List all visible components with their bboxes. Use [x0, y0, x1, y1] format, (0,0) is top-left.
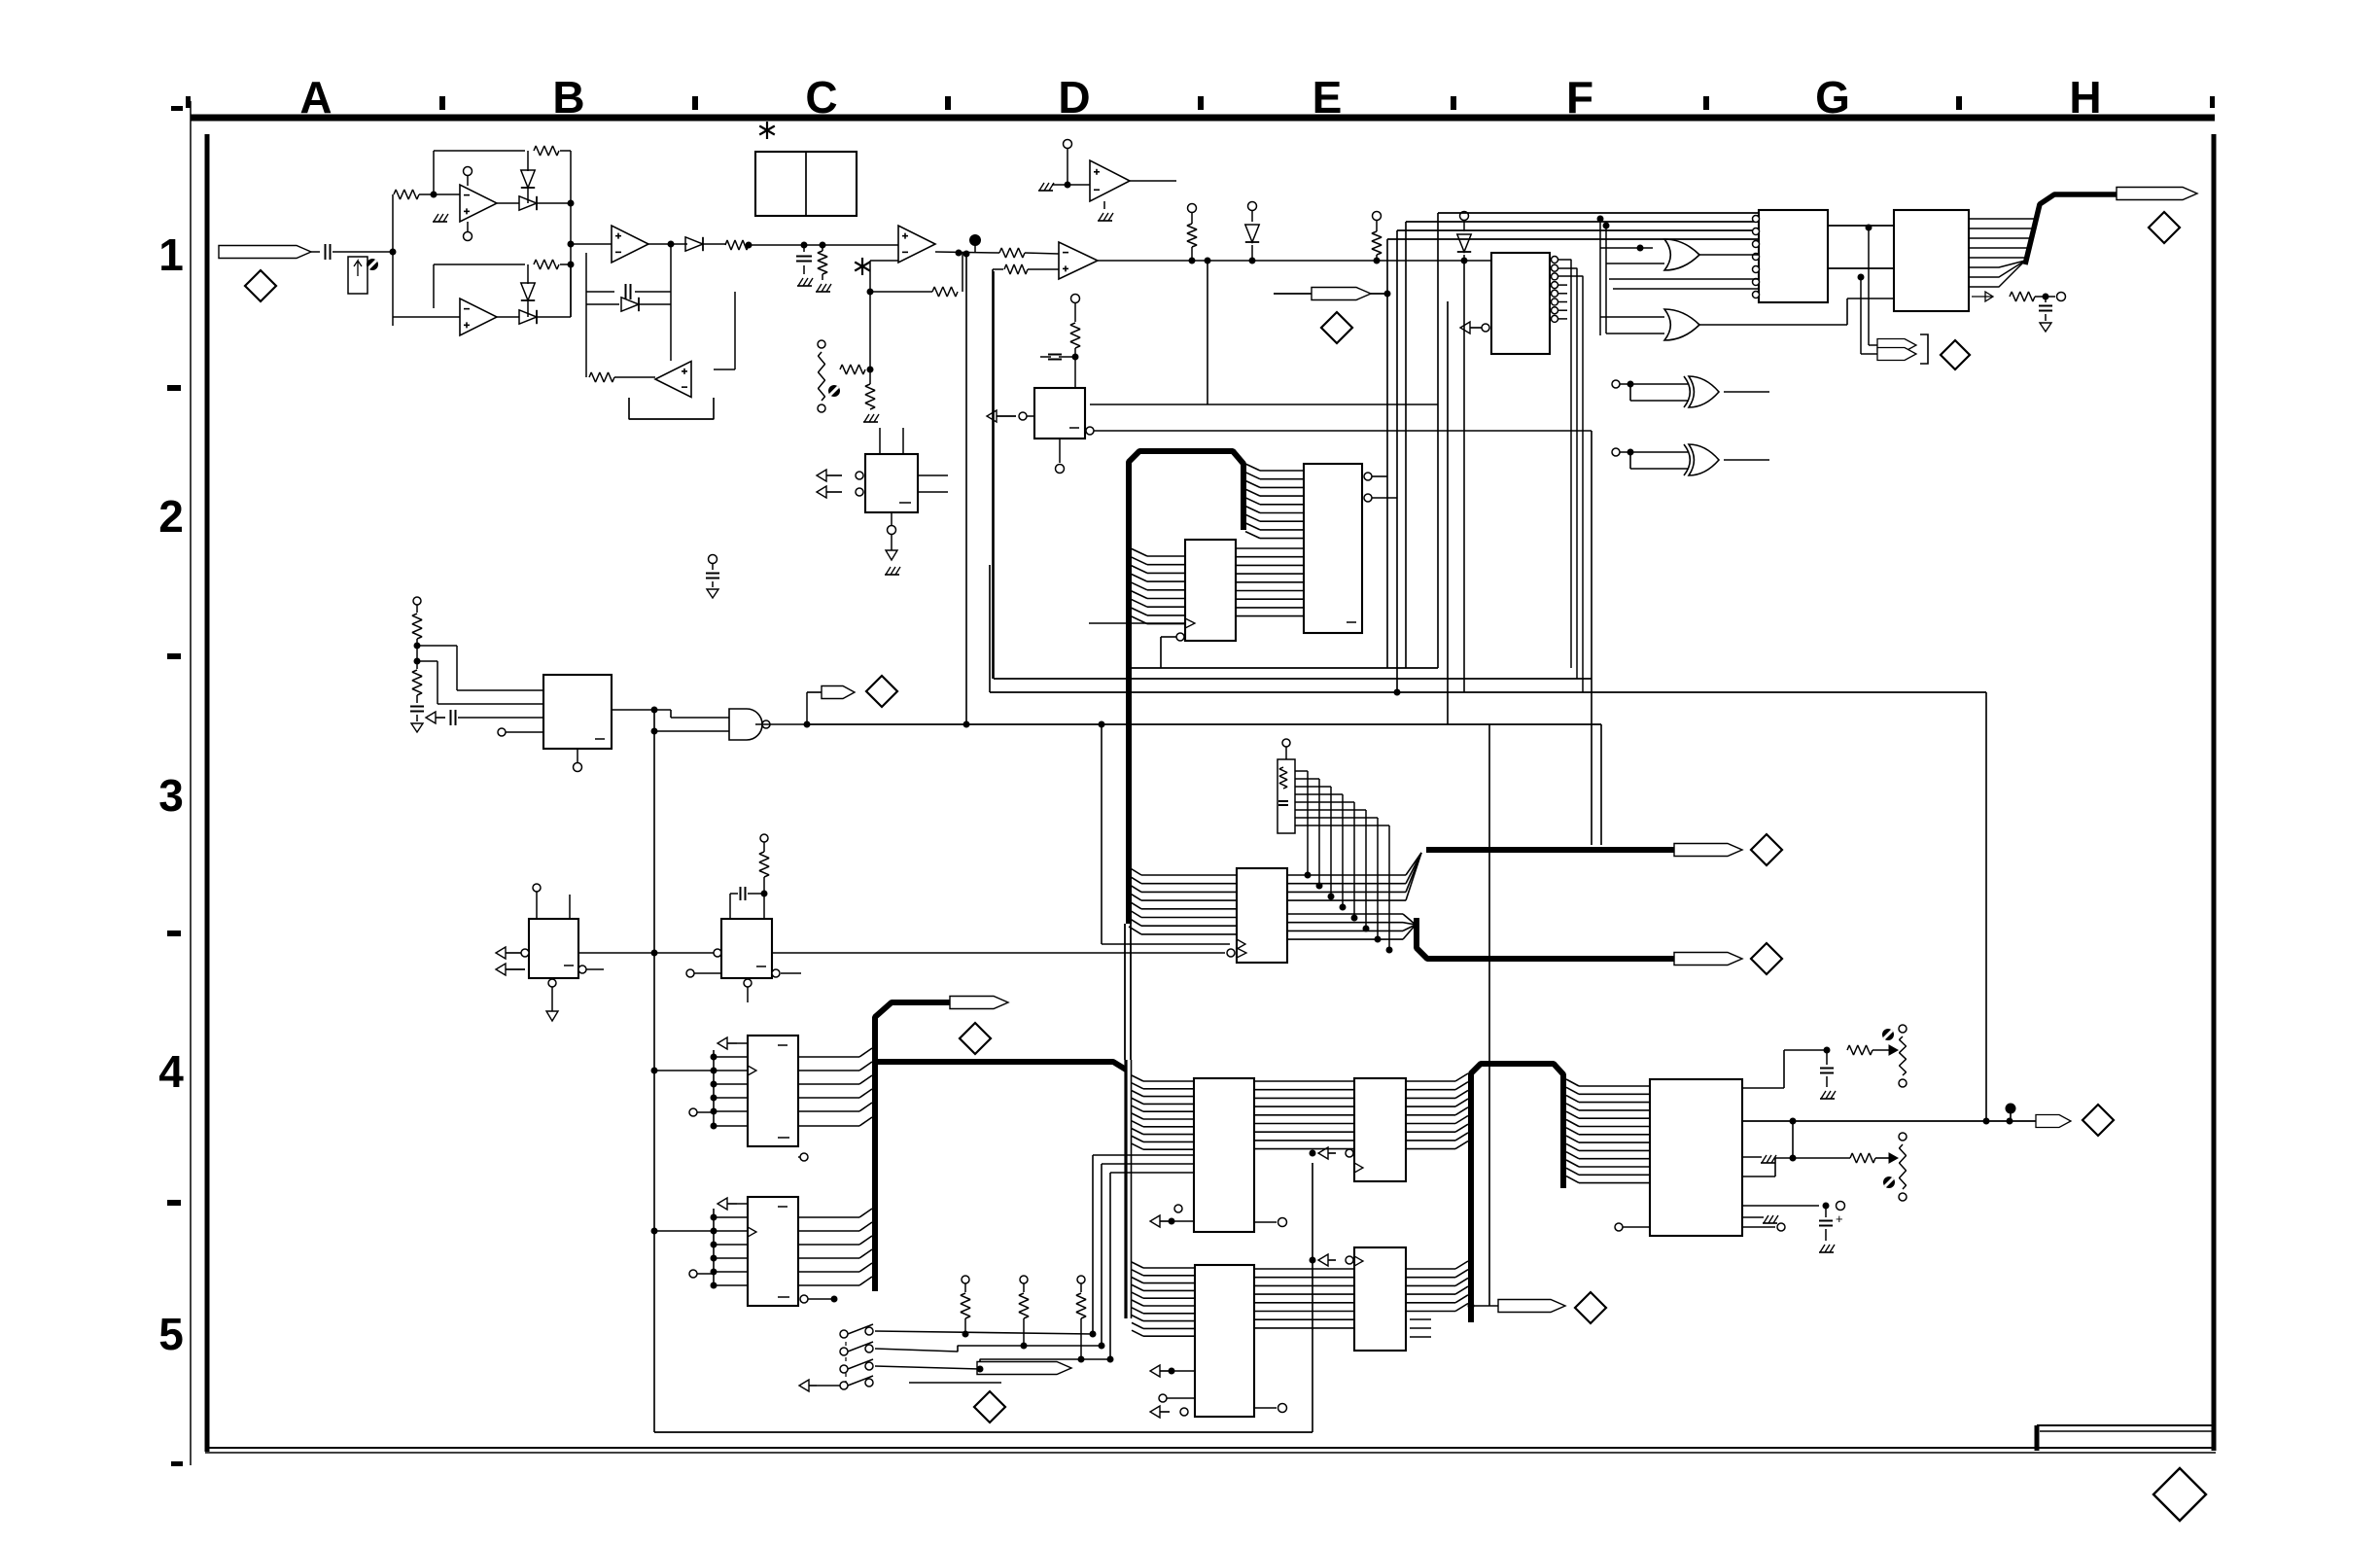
svg-text:C: C [805, 72, 837, 123]
svg-text:+: + [1836, 1211, 1843, 1226]
svg-text:A: A [299, 72, 332, 123]
svg-text:G: G [1815, 72, 1850, 123]
svg-text:F: F [1566, 72, 1593, 123]
svg-text:H: H [2069, 72, 2101, 123]
svg-text:4: 4 [158, 1046, 184, 1097]
svg-text:2: 2 [158, 491, 184, 542]
svg-text:B: B [552, 72, 584, 123]
svg-text:D: D [1058, 72, 1090, 123]
svg-text:E: E [1312, 72, 1343, 123]
svg-text:3: 3 [158, 770, 184, 821]
svg-text:5: 5 [158, 1309, 184, 1359]
svg-text:1: 1 [158, 229, 184, 280]
